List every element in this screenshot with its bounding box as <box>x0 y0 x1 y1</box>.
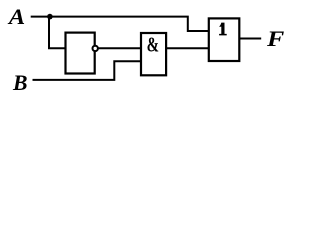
svg-text:&: & <box>147 34 159 56</box>
svg-text:A: A <box>7 5 26 29</box>
svg-text:F: F <box>266 26 284 51</box>
svg-text:B: B <box>12 70 27 95</box>
